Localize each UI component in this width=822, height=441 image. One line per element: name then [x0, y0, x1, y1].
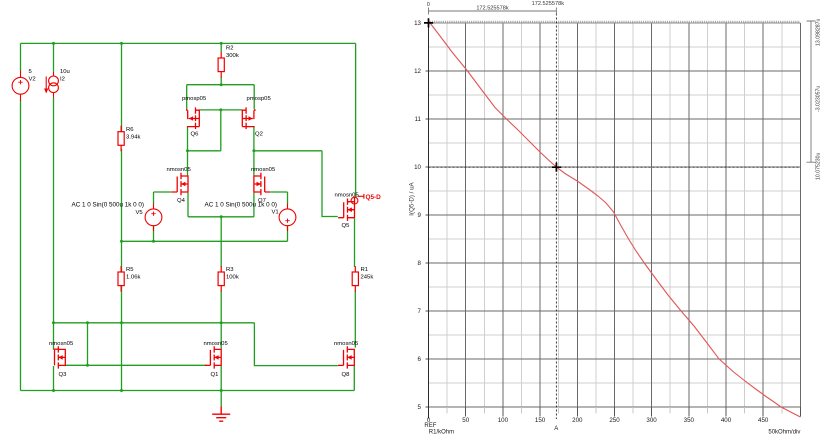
pmos transistor Q6	[187, 107, 200, 129]
nmos transistor Q8	[338, 346, 354, 368]
wire R2 top	[220, 43, 222, 52]
wire Q2 drain to Q7 drain	[253, 127, 255, 175]
wire I2 top	[53, 43, 55, 71]
wire supply to Q5 drain	[355, 43, 357, 197]
svg-text:350: 350	[684, 417, 695, 424]
svg-text:nmosn05: nmosn05	[334, 341, 359, 347]
svg-text:172.525578k: 172.525578k	[476, 5, 509, 11]
svg-text:300k: 300k	[226, 53, 239, 59]
wire mirror gate bus	[54, 322, 255, 324]
major axis ticks	[425, 23, 800, 417]
wire diode node horizontal	[188, 150, 221, 152]
axis captions	[424, 423, 800, 435]
y axis	[428, 21, 430, 419]
wire riser down to Q5 gate	[322, 151, 338, 217]
wire Q4 source down	[187, 193, 189, 217]
wire Q1 source to ground rail	[220, 366, 222, 391]
wire Q6 drain to Q4 drain	[187, 127, 189, 175]
svg-text:nmosn05: nmosn05	[167, 167, 192, 173]
wire down to V5	[153, 192, 155, 204]
svg-text:Q5-D: Q5-D	[366, 194, 382, 201]
cursor horizontal dashed line	[429, 166, 801, 168]
right ruler delta measurement	[807, 21, 816, 162]
svg-text:6: 6	[418, 356, 422, 363]
marker cross at curve start	[424, 18, 433, 27]
svg-text:REF: REF	[424, 423, 436, 429]
svg-text:Q8: Q8	[342, 372, 351, 378]
svg-text:12: 12	[414, 68, 421, 75]
pmos transistor Q2	[242, 107, 255, 129]
resistor R1 245k	[352, 266, 358, 292]
svg-text:13.098287u: 13.098287u	[816, 18, 822, 46]
svg-text:nmosn05: nmosn05	[335, 193, 360, 199]
nmos transistor Q3 diode-connected	[55, 346, 66, 368]
voltage source V2 5V	[12, 71, 29, 101]
minor grid	[429, 23, 801, 407]
top axis comb	[429, 22, 801, 24]
wire V1 bottom	[287, 226, 289, 241]
wire R5 bottom to ground rail	[121, 286, 123, 391]
svg-text:172.525578k: 172.525578k	[532, 1, 565, 7]
svg-text:R1/kOhm: R1/kOhm	[429, 430, 454, 436]
wire output node to Q5 gate riser	[254, 150, 322, 152]
svg-text:250: 250	[609, 417, 620, 424]
svg-text:V5: V5	[136, 210, 144, 216]
svg-text:100: 100	[498, 417, 509, 424]
nmos transistor Q1	[205, 346, 221, 368]
wire bus drop to mirror gates	[87, 323, 89, 366]
wire Q5 source to R1 top	[354, 218, 356, 267]
resistor R2 300k	[218, 52, 224, 78]
current source I2 10u	[46, 72, 58, 98]
wire Q6 drain to Q2 drain rail	[199, 109, 242, 111]
svg-text:AC 1 0 Sin(0 500u 1k 0 0): AC 1 0 Sin(0 500u 1k 0 0)	[72, 201, 144, 208]
svg-text:400: 400	[721, 417, 732, 424]
wire I2 bottom to mirror bus	[53, 97, 55, 323]
svg-text:245k: 245k	[361, 274, 374, 280]
AC source value labels	[72, 201, 277, 208]
svg-text:pmosp05: pmosp05	[182, 96, 207, 102]
svg-text:10.075230u: 10.075230u	[816, 152, 822, 180]
ground symbol	[212, 407, 230, 422]
wire diode node drop	[220, 110, 222, 151]
resistor R6 3.94k	[118, 126, 124, 152]
wire top supply rail	[21, 42, 356, 44]
wire ground stem	[220, 391, 222, 407]
svg-text:300: 300	[646, 417, 657, 424]
y axis labels	[414, 20, 421, 411]
svg-text:50: 50	[462, 417, 469, 424]
wire source bias rail	[122, 240, 288, 242]
resistor R5 1.06k	[118, 266, 124, 292]
top ruler delta measurement	[429, 8, 557, 15]
svg-text:V2: V2	[29, 76, 36, 82]
svg-text:Q3: Q3	[59, 372, 68, 378]
wire R6 top	[121, 43, 123, 131]
minor axis ticks	[447, 407, 782, 414]
wire Q7 source down	[253, 193, 255, 217]
svg-text:V1: V1	[272, 209, 279, 215]
svg-text:I2: I2	[60, 76, 65, 82]
wire down to V1	[287, 192, 289, 204]
wire V5 bottom	[153, 226, 155, 241]
svg-text:nmosn05: nmosn05	[204, 341, 229, 347]
svg-text:A: A	[554, 426, 558, 432]
svg-text:R5: R5	[126, 267, 134, 273]
cursor A vertical dashed line	[555, 14, 557, 420]
wire Q3 source to ground rail	[53, 366, 55, 391]
svg-text:-3.023057u: -3.023057u	[816, 86, 822, 112]
probe Q5-D on drain node	[351, 194, 364, 204]
svg-text:9: 9	[418, 212, 422, 219]
wire V2 top	[20, 43, 22, 70]
wire rail down to Q2	[253, 85, 255, 109]
svg-text:13: 13	[414, 20, 421, 27]
I(Q5-D) curve	[429, 21, 801, 417]
svg-text:R1: R1	[361, 267, 369, 273]
svg-text:R6: R6	[126, 127, 134, 133]
voltage source V1 AC	[279, 204, 296, 232]
wire R1 bottom to Q8 drain	[354, 290, 356, 347]
svg-text:nmosn05: nmosn05	[49, 341, 74, 347]
svg-text:7: 7	[418, 308, 422, 315]
nmos transistor Q5 output	[338, 199, 354, 221]
svg-text:Q5: Q5	[342, 223, 351, 229]
svg-text:R3: R3	[226, 267, 234, 273]
marker cross at cursor A	[552, 163, 561, 172]
svg-text:Q2: Q2	[255, 132, 263, 138]
svg-text:1.06k: 1.06k	[126, 274, 140, 280]
wire bus to Q8 gate	[254, 323, 338, 366]
junction dots	[52, 42, 255, 392]
svg-text:200: 200	[572, 417, 583, 424]
wire pmos source rail	[187, 84, 255, 86]
svg-text:3.94k: 3.94k	[126, 135, 140, 141]
svg-text:pmosp05: pmosp05	[247, 96, 272, 102]
svg-text:Q4: Q4	[177, 198, 186, 204]
wire tail rail	[188, 216, 254, 218]
svg-text:Q6: Q6	[191, 132, 200, 138]
nmos transistor Q4	[172, 173, 188, 195]
svg-text:5: 5	[29, 69, 33, 75]
wire R2 bottom	[220, 77, 222, 85]
svg-text:Q1: Q1	[211, 372, 219, 378]
resistor R3 100k	[218, 266, 224, 292]
svg-text:0: 0	[427, 2, 430, 8]
svg-text:11: 11	[415, 116, 422, 123]
wire Q7 gate link	[270, 191, 287, 193]
wire rail down to Q6	[186, 85, 188, 109]
x axis labels	[427, 417, 769, 424]
svg-text:150: 150	[535, 417, 546, 424]
wire bus to Q3 drain	[53, 323, 55, 350]
wire tail to R3 top	[220, 217, 222, 267]
svg-text:10: 10	[414, 164, 421, 171]
svg-text:450: 450	[758, 417, 769, 424]
svg-text:R2: R2	[226, 45, 234, 51]
svg-text:nmosn05: nmosn05	[251, 167, 276, 173]
svg-text:I(Q5-D) / uA: I(Q5-D) / uA	[409, 181, 416, 215]
svg-text:10u: 10u	[60, 69, 70, 75]
wire R3 bottom to bus crossing	[220, 290, 222, 323]
svg-text:AC 1 0 Sin(0 500u 1k 0 0): AC 1 0 Sin(0 500u 1k 0 0)	[205, 201, 277, 208]
wire Q3 to Q1 gate line	[65, 364, 207, 366]
wire V2 bottom to ground rail	[20, 100, 22, 390]
wire V5 gate link	[154, 191, 172, 193]
svg-text:8: 8	[418, 260, 422, 267]
wire down to Q1 drain	[220, 323, 222, 349]
wire Q8 source to ground rail	[353, 366, 355, 391]
wire ground rail	[21, 390, 355, 392]
svg-text:100k: 100k	[226, 274, 239, 280]
wire R6 to R5 node	[121, 149, 123, 272]
svg-text:5: 5	[418, 404, 422, 411]
voltage source V5 AC	[145, 204, 162, 232]
svg-text:50kOhm/div: 50kOhm/div	[768, 430, 800, 436]
major grid	[429, 23, 801, 407]
nmos transistor Q7	[254, 173, 270, 195]
Q3 diode connection stub	[54, 348, 59, 350]
